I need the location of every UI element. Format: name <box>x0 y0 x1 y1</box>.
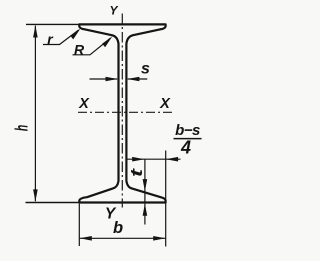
arrowhead h bottom <box>33 189 38 201</box>
svg-text:s: s <box>141 61 150 78</box>
leader r (underline + slant + arrow) <box>43 30 79 45</box>
arrowhead b right <box>153 236 165 241</box>
beam outline (I-beam cross-section) <box>79 24 165 202</box>
extension line b / (b-s)/4 right (shared) <box>165 151 167 247</box>
extension line bottom (for h) <box>26 202 80 204</box>
arrowhead R leader <box>102 36 112 47</box>
arrowhead (b-s)/4 left (points right at t-line) <box>132 157 144 162</box>
arrowhead (b-s)/4 right (points left at flange edge line) <box>166 157 178 162</box>
axis X-X centerline (horizontal dash-dot) <box>78 111 172 113</box>
svg-text:Y: Y <box>109 4 118 18</box>
svg-text:X: X <box>78 96 90 112</box>
svg-text:h: h <box>13 125 32 131</box>
dimension line (b-s)/4 <box>128 158 181 160</box>
svg-text:R: R <box>74 41 85 57</box>
leader R (underline + slant + arrow) <box>73 38 111 55</box>
arrowhead r leader <box>70 29 80 40</box>
svg-text:b−s: b−s <box>175 122 200 139</box>
axis Y centerline (vertical dash-dot) <box>121 14 123 208</box>
t lower arrow shaft <box>144 204 146 225</box>
arrowhead t down <box>143 179 148 191</box>
arrowhead h top <box>33 25 38 37</box>
svg-text:t: t <box>127 168 146 177</box>
extension line top (for h) <box>26 23 80 25</box>
svg-text:4: 4 <box>180 138 191 158</box>
extension line b left <box>78 204 80 246</box>
dimension line b <box>80 237 166 239</box>
dimension line s right half <box>128 78 148 80</box>
fraction bar <box>174 138 202 140</box>
arrowhead t up (below beam) <box>143 204 148 216</box>
dimension line s left half <box>90 78 118 80</box>
svg-text:b: b <box>113 219 123 237</box>
arrowhead s right <box>127 77 139 82</box>
arrowhead s left <box>106 77 118 82</box>
extension/dimension line t (vertical at measuring point) <box>144 159 146 203</box>
arrowhead b left <box>80 236 92 241</box>
dimension line h <box>34 26 36 202</box>
svg-text:X: X <box>159 96 171 112</box>
